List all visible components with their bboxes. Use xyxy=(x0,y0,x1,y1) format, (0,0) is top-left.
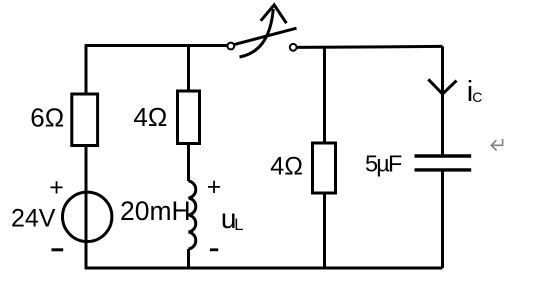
resistor R2 4ohm xyxy=(178,91,200,144)
svg-text:20mH: 20mH xyxy=(120,196,191,226)
svg-text:4Ω: 4Ω xyxy=(270,153,303,181)
wire top-left horizontal xyxy=(86,44,228,47)
svg-text:4Ω: 4Ω xyxy=(133,102,167,132)
wire left vertical (top) xyxy=(85,44,88,94)
wire branch2 vertical top xyxy=(187,44,190,91)
label inductor minus xyxy=(210,248,218,251)
capacitor C1 plate top xyxy=(415,154,472,157)
svg-text:L: L xyxy=(234,216,243,234)
svg-text:24V: 24V xyxy=(11,204,56,232)
return mark gray xyxy=(491,139,502,150)
wire left vertical through source xyxy=(85,146,88,269)
switch S1 blade xyxy=(233,28,296,45)
arrowhead current iC xyxy=(428,79,456,94)
wire branch3 vertical bottom xyxy=(323,193,326,268)
capacitor C1 plate bottom xyxy=(415,168,472,171)
switch S1 arrow curve xyxy=(240,9,274,57)
inductor L1 20mH xyxy=(189,181,196,249)
svg-text:5µF: 5µF xyxy=(365,150,402,176)
switch S1 terminal circle left xyxy=(227,43,234,50)
resistor R3 4ohm xyxy=(313,143,336,193)
wire right vertical bottom xyxy=(441,170,444,268)
wire top-right horizontal xyxy=(297,46,443,47)
svg-text:+: + xyxy=(49,174,64,202)
switch S1 arrowhead xyxy=(261,5,287,23)
wire branch2 mid xyxy=(187,144,190,182)
resistor R1 6ohm xyxy=(72,94,98,146)
label source minus xyxy=(52,248,64,251)
svg-text:+: + xyxy=(207,173,222,201)
source V1 24V circle xyxy=(62,192,111,241)
wire bottom horizontal xyxy=(85,267,443,270)
wire right vertical top xyxy=(441,46,444,156)
wire branch2 bottom xyxy=(187,249,190,269)
switch S1 terminal circle right xyxy=(290,44,297,51)
wire branch3 vertical top xyxy=(323,47,326,143)
svg-text:C: C xyxy=(472,89,482,105)
svg-text:6Ω: 6Ω xyxy=(30,103,64,133)
